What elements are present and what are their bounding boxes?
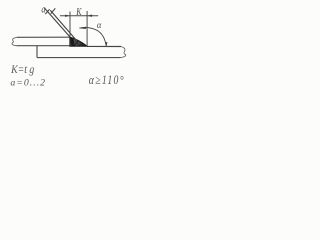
svg-text:a: a <box>41 4 45 15</box>
svg-text:α≥110°: α≥110° <box>89 74 125 87</box>
svg-text:K: K <box>75 6 82 19</box>
svg-text:K=t g: K=t g <box>10 64 35 77</box>
svg-text:a=0...2: a=0...2 <box>10 78 46 89</box>
svg-text:α: α <box>97 20 102 30</box>
